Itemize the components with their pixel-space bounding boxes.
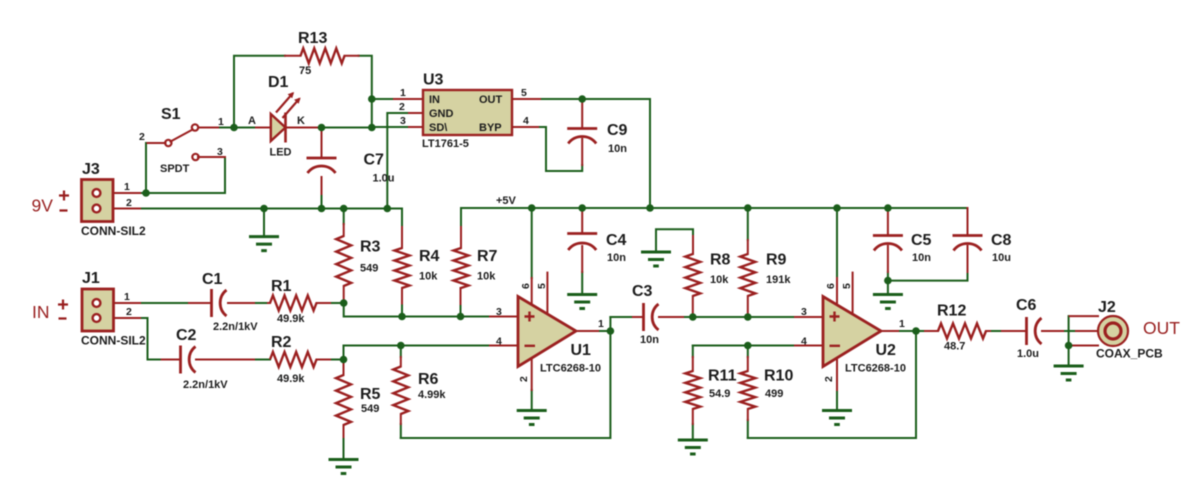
- svg-text:SD\: SD\: [429, 122, 447, 134]
- svg-text:R7: R7: [477, 248, 498, 265]
- node C7 top: [318, 124, 326, 132]
- svg-text:J2: J2: [1098, 299, 1116, 316]
- connector J1: [81, 270, 146, 348]
- wire R13 left loop: [234, 56, 285, 128]
- pin U2-2 red: [836, 358, 838, 390]
- svg-text:D1: D1: [268, 74, 289, 91]
- wire R8 top hook: [656, 229, 693, 252]
- pin U2-4 red: [795, 345, 823, 347]
- pin R3 top red: [343, 224, 345, 236]
- pin R1 right red: [317, 302, 331, 304]
- svg-text:2: 2: [399, 101, 405, 113]
- pin U2-6 red: [836, 278, 838, 305]
- wire J1 pin1 to C1: [140, 302, 189, 304]
- svg-text:R12: R12: [937, 303, 966, 320]
- pin U3-2 red: [409, 112, 423, 114]
- svg-text:BYP: BYP: [479, 122, 502, 134]
- regulator U3: [399, 72, 529, 151]
- capacitor C7 plates: [307, 158, 337, 173]
- wire R7 top stub: [460, 208, 462, 227]
- wire GND rail left: [140, 208, 402, 210]
- pin R9 bottom red: [747, 296, 749, 317]
- svg-text:2: 2: [823, 376, 835, 382]
- svg-text:A: A: [248, 115, 256, 127]
- pin J1-2 red: [103, 317, 140, 319]
- pin R6 top red: [400, 357, 402, 367]
- resistor R12: [938, 324, 986, 339]
- pin R5 bottom red: [343, 425, 345, 437]
- pin J2 center red: [1076, 330, 1104, 332]
- wire R4 bottom green: [401, 304, 403, 317]
- svg-text:LT1761-5: LT1761-5: [422, 138, 469, 150]
- resistor R4: [395, 248, 410, 288]
- capacitor C3 plates: [644, 303, 659, 331]
- node U2 pin6 rail: [833, 204, 841, 212]
- pin R13 right red: [345, 55, 359, 57]
- resistor R1: [270, 296, 316, 311]
- node R8 pin3: [689, 313, 697, 321]
- pin U3-4 red: [512, 126, 538, 128]
- pin C2 right red: [196, 359, 254, 361]
- svg-text:C7: C7: [364, 152, 385, 169]
- wire C5 C8 bottom: [888, 272, 968, 281]
- svg-text:GND: GND: [429, 108, 454, 120]
- wire U1 pin2 green: [531, 390, 533, 411]
- node R13 left LED line: [230, 124, 238, 132]
- svg-text:54.9: 54.9: [709, 388, 730, 400]
- wire R1 to node: [330, 302, 344, 304]
- WIRES-GREEN: [140, 56, 1076, 460]
- svg-text:549: 549: [361, 403, 379, 415]
- svg-text:C2: C2: [176, 327, 197, 344]
- svg-text:SPDT: SPDT: [160, 163, 190, 175]
- pin J2 tab bottom red: [1070, 345, 1098, 347]
- svg-text:LED: LED: [270, 147, 292, 159]
- wire U1 pin3 net: [344, 303, 490, 317]
- pin R3 bottom red: [343, 286, 345, 303]
- svg-text:CONN-SIL2: CONN-SIL2: [81, 334, 146, 348]
- node C9 top: [578, 95, 586, 103]
- LED D1: [248, 74, 305, 159]
- svg-text:2.2n/1kV: 2.2n/1kV: [213, 321, 258, 333]
- svg-text:R9: R9: [766, 252, 787, 269]
- svg-text:191k: 191k: [766, 274, 791, 286]
- svg-text:C6: C6: [1016, 297, 1037, 314]
- svg-text:R8: R8: [710, 252, 731, 269]
- svg-text:LTC6268-10: LTC6268-10: [845, 363, 906, 375]
- wire U3 BYP to C9 bottom: [538, 127, 582, 171]
- svg-text:10u: 10u: [992, 252, 1011, 264]
- svg-text:K: K: [297, 115, 305, 127]
- pin U1-3 red: [490, 316, 518, 318]
- resistor R3: [336, 236, 351, 286]
- svg-text:10n: 10n: [640, 334, 659, 346]
- node R10 top: [744, 342, 752, 350]
- pin R8 bottom red: [692, 296, 694, 317]
- pin C2 left red: [162, 359, 179, 361]
- wire R9 top stub: [747, 208, 749, 240]
- svg-text:4: 4: [801, 336, 807, 348]
- svg-text:CONN-SIL2: CONN-SIL2: [81, 224, 146, 238]
- wire R13 right loop: [359, 56, 372, 128]
- resistor R13: [301, 48, 345, 63]
- svg-text:10n: 10n: [607, 252, 626, 264]
- svg-text:C4: C4: [606, 232, 627, 249]
- svg-text:1: 1: [124, 181, 130, 193]
- ground under U1: [517, 411, 547, 425]
- svg-text:1: 1: [598, 318, 604, 330]
- wire S1 pin3 loop: [146, 157, 225, 193]
- node U2 out: [912, 327, 920, 335]
- pin U3-3 red: [409, 126, 423, 128]
- resistor R10: [740, 371, 755, 409]
- pin R10 top red: [747, 357, 749, 371]
- connector J3: [81, 161, 146, 238]
- svg-text:1.0u: 1.0u: [373, 173, 395, 185]
- GROUND SYMBOLS: [249, 237, 1084, 474]
- node R7 pin3: [457, 313, 465, 321]
- svg-text:2: 2: [139, 131, 145, 143]
- capacitor C2 plates: [181, 346, 196, 374]
- svg-text:IN: IN: [429, 94, 440, 106]
- ground under rail: [249, 237, 279, 251]
- node U1 out: [607, 327, 615, 335]
- wire U3 GND drop: [387, 113, 409, 209]
- svg-text:9V: 9V: [32, 196, 54, 216]
- RED-LINES: [103, 56, 1104, 437]
- pin D1 cathode red: [286, 127, 320, 129]
- pin R1 left red stub: [268, 302, 270, 304]
- coax J2: [1096, 299, 1163, 361]
- svg-text:1: 1: [124, 291, 130, 303]
- wire C7 bottom: [321, 194, 323, 209]
- wire R2 to R5 node: [330, 359, 344, 361]
- wire C3 left green: [610, 316, 633, 318]
- resistor R7: [454, 248, 469, 288]
- pin C1 left red: [189, 302, 211, 304]
- pin R2 right red: [317, 359, 331, 361]
- pin C7 top red: [321, 129, 323, 156]
- wire J2 signal green: [1063, 330, 1076, 332]
- node C4 rail: [578, 204, 586, 212]
- pin U1-5 red stub: [546, 273, 548, 315]
- wire R4 top stub: [401, 209, 403, 228]
- svg-text:3: 3: [217, 146, 223, 158]
- svg-text:1: 1: [899, 318, 905, 330]
- pin C1 right red: [228, 302, 254, 304]
- wire R12 to C6 green: [990, 330, 1002, 332]
- pin U3-1 red: [394, 98, 423, 100]
- pin J3-1 red: [103, 192, 140, 194]
- pin U2-1 red: [881, 330, 898, 332]
- svg-text:2.2n/1kV: 2.2n/1kV: [183, 379, 228, 391]
- svg-text:1: 1: [218, 116, 224, 128]
- resistor R8: [685, 254, 700, 296]
- wire U2 out green: [898, 330, 925, 332]
- wire R5 bottom green: [343, 437, 345, 460]
- svg-text:3: 3: [496, 306, 502, 318]
- svg-text:49.9k: 49.9k: [277, 373, 305, 385]
- wire R10 bottom green: [747, 420, 749, 438]
- svg-text:S1: S1: [161, 106, 181, 123]
- node J2 shield: [1065, 342, 1073, 350]
- svg-text:+5V: +5V: [496, 195, 517, 207]
- node R13 right pin1: [368, 95, 376, 103]
- pin R7 bottom red: [460, 288, 462, 304]
- svg-text:C3: C3: [632, 283, 653, 300]
- pin S1-3 red: [198, 156, 225, 158]
- wire C2 to R2: [254, 359, 270, 361]
- capacitor C1 plates: [212, 289, 227, 317]
- pin R12 right red: [986, 330, 990, 332]
- ground under R11: [678, 440, 708, 454]
- svg-text:R11: R11: [708, 368, 737, 385]
- svg-text:10n: 10n: [912, 252, 931, 264]
- svg-text:IN: IN: [32, 302, 50, 322]
- ground under U2: [822, 411, 852, 425]
- svg-text:2: 2: [126, 197, 132, 209]
- pin C4 top red: [581, 208, 583, 233]
- pin R12 left red: [925, 330, 938, 332]
- pin U1-2 red: [531, 358, 533, 390]
- capacitor C9 plates: [567, 129, 597, 144]
- svg-text:R5: R5: [360, 386, 381, 403]
- svg-text:75: 75: [299, 65, 311, 77]
- node R6 top: [397, 342, 405, 350]
- TEXT-LABELS: [32, 30, 1181, 415]
- svg-text:4.99k: 4.99k: [418, 389, 446, 401]
- wire LED K to U3 pin3: [319, 127, 372, 129]
- svg-text:549: 549: [360, 263, 378, 275]
- svg-text:2: 2: [126, 306, 132, 318]
- pin U1-6 red: [531, 278, 533, 305]
- svg-text:499: 499: [765, 388, 783, 400]
- svg-text:5: 5: [536, 283, 548, 289]
- node R4 pin3: [398, 313, 406, 321]
- wire R3 top stub: [343, 209, 345, 225]
- pin U2-3 red: [795, 316, 823, 318]
- pin C8 top red: [967, 208, 969, 235]
- pin C7 bottom red: [321, 177, 323, 194]
- switch S1: [139, 106, 224, 175]
- wire U1 pin6 riser: [531, 208, 533, 278]
- svg-text:LTC6268-10: LTC6268-10: [540, 363, 601, 375]
- pin S1-1 red: [199, 127, 219, 129]
- node C5 bottom: [884, 277, 892, 285]
- pin R7 top red: [460, 227, 462, 248]
- wire J3 pin1 to S1 loop: [140, 143, 146, 193]
- wire U2 pin6 riser: [836, 208, 838, 278]
- svg-text:J3: J3: [82, 161, 100, 178]
- pin U2-5 red stub: [852, 273, 854, 315]
- wire C1 to R1: [254, 302, 270, 304]
- svg-text:C9: C9: [607, 122, 628, 139]
- wire U3 pin3 green: [372, 126, 409, 128]
- wire U2 pin4 net: [693, 345, 795, 347]
- svg-text:5: 5: [521, 87, 527, 99]
- wire R6 top stub: [400, 346, 402, 358]
- op-amp U1: [496, 283, 604, 382]
- wire +5V rail: [461, 207, 968, 209]
- wire U1 pin4 net: [344, 346, 491, 360]
- pin R4 top red: [401, 227, 403, 248]
- pin J2 tab top red: [1070, 315, 1098, 317]
- pin C9 top red: [581, 99, 583, 128]
- ground under R5: [329, 460, 359, 474]
- svg-text:C5: C5: [911, 232, 932, 249]
- RESISTORS: [270, 48, 986, 425]
- pin U3-5 red: [512, 98, 540, 100]
- node U1 pin6 rail: [528, 204, 536, 212]
- svg-text:R10: R10: [764, 368, 793, 385]
- pin R6 bottom red: [400, 414, 402, 424]
- wire U3 OUT to +5V: [540, 99, 650, 208]
- svg-text:1: 1: [400, 87, 406, 99]
- wire U1 out riser and feedback: [401, 317, 611, 438]
- svg-text:COAX_PCB: COAX_PCB: [1096, 347, 1163, 361]
- node gnd rail tap: [260, 205, 268, 213]
- wire R7 bottom green: [460, 304, 462, 317]
- pin C3 right red: [659, 316, 683, 318]
- node C5 rail: [884, 204, 892, 212]
- svg-text:R2: R2: [271, 334, 292, 351]
- wire J1 pin2 to C2: [140, 318, 162, 360]
- node R5 top: [340, 356, 348, 364]
- svg-text:C1: C1: [202, 271, 223, 288]
- pin R9 top red: [747, 240, 749, 254]
- svg-text:2: 2: [518, 376, 530, 382]
- resistor R9: [740, 254, 755, 296]
- svg-text:3: 3: [400, 115, 406, 127]
- svg-text:R4: R4: [419, 248, 440, 265]
- pin R10 bottom red: [747, 409, 749, 420]
- pin C4 bottom red: [581, 246, 583, 272]
- capacitor C4 plates: [567, 234, 597, 251]
- svg-text:R1: R1: [271, 278, 292, 295]
- pin U1-1 red: [576, 330, 598, 332]
- wire R11 bottom green: [692, 424, 694, 440]
- wire gnd stub under rail: [263, 209, 265, 237]
- svg-text:OUT: OUT: [479, 94, 503, 106]
- svg-text:C8: C8: [991, 232, 1012, 249]
- node U3 out rail: [646, 204, 654, 212]
- wire U2 feedback loop: [748, 331, 916, 438]
- svg-text:4: 4: [523, 115, 529, 127]
- node R9 rail: [744, 204, 752, 212]
- svg-text:6: 6: [825, 283, 837, 289]
- pin R8 top red: [692, 236, 694, 254]
- svg-text:U3: U3: [423, 72, 444, 89]
- svg-text:1.0u: 1.0u: [1017, 348, 1039, 360]
- resistor R11: [685, 371, 700, 409]
- capacitor C8 plates: [953, 236, 983, 251]
- resistor R6: [393, 367, 408, 415]
- svg-text:10k: 10k: [477, 271, 496, 283]
- svg-text:4: 4: [496, 336, 502, 348]
- svg-text:5: 5: [841, 283, 853, 289]
- pin R4 bottom red: [401, 288, 403, 304]
- resistor R2: [270, 352, 316, 367]
- pin J1-1 red: [103, 302, 140, 304]
- node C7 rail: [318, 205, 326, 213]
- ground under J2: [1054, 366, 1084, 380]
- svg-text:U1: U1: [571, 342, 592, 359]
- pin J3-2 red: [103, 208, 140, 210]
- node R9 pin3: [744, 313, 752, 321]
- svg-text:6: 6: [520, 283, 532, 289]
- ground under C4: [567, 295, 597, 309]
- polarity marks J1: [58, 300, 68, 319]
- pin C6 right red: [1042, 330, 1063, 332]
- wire C4 bottom green: [581, 272, 583, 294]
- polarity marks J3: [59, 191, 69, 211]
- wire R10 top stub: [747, 346, 749, 358]
- node U3 gnd rail: [384, 205, 392, 213]
- pin R13 left red: [285, 55, 301, 57]
- svg-text:R3: R3: [360, 239, 381, 256]
- node R3 rail: [340, 205, 348, 213]
- pin C6 left red: [1002, 330, 1025, 332]
- pin C5 top red: [887, 208, 889, 235]
- CAPACITORS: [181, 129, 1042, 374]
- pin C8 bottom red: [967, 246, 969, 272]
- node J3 pin1 junction: [142, 189, 150, 197]
- svg-text:R13: R13: [298, 30, 327, 47]
- svg-text:48.7: 48.7: [944, 341, 965, 353]
- svg-text:49.9k: 49.9k: [277, 313, 305, 325]
- wire J2 shield drop: [1068, 316, 1070, 365]
- svg-text:J1: J1: [82, 270, 100, 287]
- svg-text:10n: 10n: [608, 143, 627, 155]
- svg-text:R6: R6: [418, 371, 439, 388]
- pin C5 bottom red: [887, 246, 889, 272]
- svg-text:OUT: OUT: [1143, 318, 1180, 338]
- wire C5 gnd stub: [887, 281, 889, 294]
- node R13 right pin3: [368, 124, 376, 132]
- wire R6 bottom green: [400, 424, 402, 438]
- pin R5 top red: [343, 361, 345, 375]
- pin C3 left red: [633, 316, 642, 318]
- wire U1 out to C3: [598, 330, 610, 332]
- wire R11 top stub: [692, 346, 694, 358]
- pin R11 bottom red: [692, 409, 694, 424]
- wire C3 to U2 pin3: [683, 316, 795, 318]
- pin S1-2 red: [148, 142, 166, 144]
- resistor R5: [336, 375, 351, 425]
- wire S1 to LED: [218, 127, 256, 129]
- pin U1-4 red: [490, 345, 518, 347]
- capacitor C5 plates: [873, 236, 903, 251]
- pin C9 bottom red: [581, 139, 583, 165]
- svg-text:U2: U2: [876, 342, 897, 359]
- svg-text:3: 3: [801, 306, 807, 318]
- node R1 R3 junction: [340, 299, 348, 307]
- ground under R8: [641, 252, 671, 266]
- op-amp U2: [801, 283, 906, 382]
- wire U3 pin1 green: [372, 98, 394, 100]
- pin D1 anode red: [256, 127, 271, 129]
- svg-text:10k: 10k: [419, 271, 438, 283]
- ground under C5: [873, 295, 903, 309]
- svg-text:10k: 10k: [710, 274, 729, 286]
- wire U2 pin2 green: [836, 390, 838, 411]
- pin S1 lever: [171, 130, 193, 142]
- capacitor C6 plates: [1027, 317, 1042, 345]
- pin R11 top red: [692, 357, 694, 371]
